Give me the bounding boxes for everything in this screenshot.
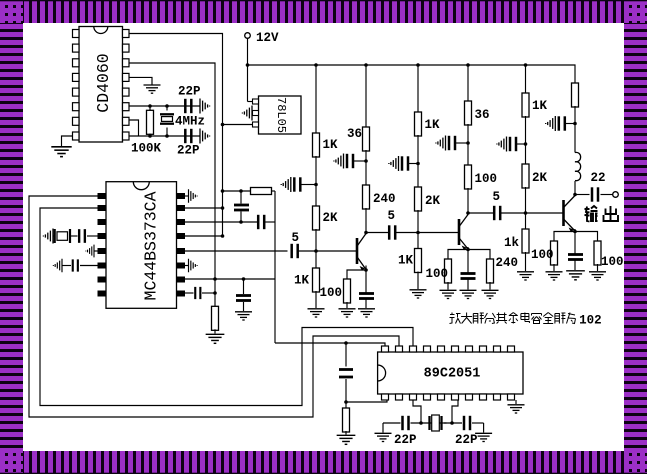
node dot [213, 277, 217, 281]
transistor Q3 [526, 196, 575, 233]
svg-text:100: 100 [320, 286, 343, 300]
decorative border top [23, 0, 624, 23]
svg-text:1k: 1k [504, 236, 520, 250]
emitter bypass cap stage2 [467, 250, 469, 274]
resistor below resonator [345, 402, 347, 409]
wire CD4060 pin6 oscillator line [129, 105, 200, 107]
node dot [416, 162, 420, 166]
resistor 36 stage2 [465, 101, 472, 125]
sideways ground at 78L05 gnd pin [242, 106, 252, 121]
ground [339, 309, 356, 317]
ground [566, 271, 585, 280]
svg-text:36: 36 [475, 108, 490, 122]
node dot [239, 220, 243, 224]
wire CD4060 left pin8 to ground [62, 136, 73, 146]
divider column x=418 [417, 65, 419, 113]
ground [589, 272, 606, 280]
emitter bypass cap stage3 [574, 232, 576, 255]
decoupling cap stage2 divider [408, 163, 418, 165]
wire CD4060 pin8 oscillator line [129, 135, 200, 137]
corner bottom-left [0, 451, 23, 474]
svg-text:1K: 1K [532, 99, 548, 113]
wire 12V drop to 78L05 [247, 38, 249, 101]
node dot collector Q1 [364, 231, 368, 235]
wire loop A: MC pin L1 to 89C2051 pin2 [29, 196, 399, 417]
capacitor column x=243.5 to ground [243, 279, 245, 294]
emitter resistor 100 stage1 [347, 270, 366, 280]
svg-text:100: 100 [531, 248, 554, 262]
decoupling cap stage1 collector [353, 160, 366, 162]
emitter bypass cap stage1 [365, 270, 367, 294]
resistor 2K stage1 [313, 206, 320, 230]
node dot [524, 142, 528, 146]
ground at 89C2051 bottom right pin [515, 400, 517, 404]
node dot base stage1 [314, 249, 318, 253]
decorative border right [624, 23, 647, 451]
svg-text:100K: 100K [131, 142, 162, 156]
capacitor at MC pin L6 [80, 265, 98, 267]
sideways ground right of top 22P [200, 99, 210, 114]
wire MC pin R2 to bus [185, 207, 223, 209]
svg-text:100: 100 [426, 267, 449, 281]
divider column x=316 [315, 65, 317, 134]
svg-text:5: 5 [388, 209, 396, 223]
sideways ground at L6 [53, 259, 62, 273]
coupling cap 5 stage1-2 [366, 232, 389, 234]
wire 12V to 78L05 in [248, 101, 253, 103]
svg-text:102: 102 [579, 314, 602, 328]
resistor 2K stage2 [415, 187, 422, 211]
collector column x=366 [365, 65, 367, 128]
ground [460, 290, 477, 298]
ground below x=215 resistor [206, 334, 225, 343]
crystal X2 [430, 416, 442, 430]
node dot base Q3 [524, 211, 528, 215]
node dot [213, 291, 217, 295]
svg-text:78L05: 78L05 [274, 97, 288, 133]
svg-text:1K: 1K [323, 138, 339, 152]
ground [410, 290, 427, 298]
node dot [450, 421, 454, 425]
svg-text:22P: 22P [455, 433, 478, 447]
ground [337, 435, 356, 444]
node dot [314, 183, 318, 187]
wire CD4060 pin7 jog [129, 120, 139, 136]
ground below CD4060 left [51, 147, 71, 157]
ground [482, 290, 499, 298]
ground [358, 309, 375, 317]
node dot [524, 63, 528, 67]
node dot collector Q2 [466, 211, 470, 215]
resonator plates [339, 370, 353, 378]
node dot [573, 122, 577, 126]
wire CD4060 pin4 to ground [129, 77, 152, 84]
decorative border left [0, 23, 23, 451]
corner top-left [0, 0, 23, 23]
resistor 1k below base Q3 [522, 229, 529, 253]
divider column x=525.5 [525, 65, 527, 94]
node dot [239, 189, 243, 193]
wire MC pin R4 to bus [185, 235, 223, 237]
node dot emitter Q3 [573, 230, 577, 234]
capacitor C 22P bottom [185, 129, 191, 143]
riser to 89C2051 bottom pin3 [413, 400, 421, 423]
emitter resistor 100 stage3 right [575, 232, 598, 243]
wire x=275 corner to 89C2051 pin1 [275, 343, 385, 346]
decoupling cap stage3 divider [516, 143, 526, 145]
svg-text:100: 100 [601, 255, 624, 269]
emitter resistor 100 stage3 left [554, 232, 575, 243]
sideways ground at L4 [43, 229, 53, 244]
svg-text:240: 240 [496, 256, 519, 270]
svg-text:22P: 22P [178, 85, 201, 99]
svg-text:36: 36 [347, 127, 362, 141]
IC U3 MC44BS373CA [98, 182, 186, 309]
node dot [165, 104, 169, 108]
node dot MC R4 [221, 234, 225, 238]
svg-text:5: 5 [292, 231, 300, 245]
resistor 1K stage1 lower [313, 268, 320, 292]
node dot [148, 104, 152, 108]
edge line bottom [0, 473, 647, 474]
vertical wire x=275 down to 89C2051 line [274, 191, 276, 343]
node dot 12V bus [246, 63, 250, 67]
decoupling cap stage3 collector [565, 123, 575, 125]
12V supply terminal [245, 33, 251, 39]
svg-text:1K: 1K [425, 118, 441, 132]
ground stage1 divider [308, 309, 325, 317]
node dot [364, 159, 368, 163]
node dot [221, 189, 225, 193]
resistor line from bus y=191 [223, 190, 251, 192]
wire to 89C2051 bottom pin1 [346, 400, 387, 402]
wire 12V top bus [248, 65, 576, 84]
node dot [416, 63, 420, 67]
node dot [344, 400, 348, 404]
svg-text:22P: 22P [394, 433, 417, 447]
resistor R 100K [149, 106, 151, 111]
sideways ground at MC pin R1 [185, 195, 189, 197]
wire CD4060 pin1 to vertical bus x=222.5 [129, 34, 223, 237]
capacitor 22P left [403, 416, 409, 430]
wire loop B: MC pin L2 to 89C2051 pin3 [40, 208, 413, 406]
sideways ground right of bottom 22P [200, 129, 210, 144]
collector column x=575 resistor [572, 83, 579, 107]
svg-text:5: 5 [493, 190, 501, 204]
resistor 2K stage3 [522, 164, 529, 188]
resonator column x=346 [345, 343, 347, 367]
label 输出 (output) [585, 206, 619, 222]
crystal Y1 4MHz [166, 106, 168, 111]
decorative border bottom [23, 451, 624, 474]
resistor R horizontal [251, 188, 272, 195]
node dot emitter Q2 [466, 248, 470, 252]
svg-text:1K: 1K [294, 274, 310, 288]
ground right end [483, 423, 485, 433]
wire CD4060 pin3 to vertical bus x=215 [129, 63, 215, 309]
capacitor C 22P top [185, 99, 191, 113]
node dot [221, 206, 225, 210]
svg-text:89C2051: 89C2051 [424, 367, 481, 382]
resistor 100 stage2 collector [465, 165, 472, 189]
svg-text:MC44BS373CA: MC44BS373CA [142, 191, 161, 300]
resistor R on bus x=215 [212, 306, 219, 330]
inductor L1 [575, 152, 581, 180]
node dot collector Q3 [573, 193, 577, 197]
corner bottom-right [624, 451, 647, 474]
svg-text:2K: 2K [532, 171, 548, 185]
svg-text:2K: 2K [425, 194, 441, 208]
sideways ground at MC pin L5 [94, 250, 98, 252]
svg-text:100: 100 [475, 172, 498, 186]
IC U4 89C2051 [378, 346, 523, 400]
decoupling cap stage2 collector [455, 142, 468, 144]
ground below cap [235, 312, 252, 320]
transistor Q2 [418, 215, 468, 251]
svg-text:4MHz: 4MHz [175, 115, 205, 129]
output terminal circle [613, 192, 619, 198]
crystal line of 89C2051 [383, 422, 401, 424]
node dot [419, 421, 423, 425]
coupling cap 5 stage2-3 [468, 212, 494, 214]
IC U2 78L05 [253, 96, 302, 134]
resistor 1K stage1 top [313, 133, 320, 157]
note text: amplifier caps are all 102 [450, 313, 602, 328]
sideways ground at MC pin R6 [185, 265, 189, 267]
capacitor on R3 line [258, 215, 264, 229]
output coupling cap 22 [575, 194, 590, 196]
node dot [165, 134, 169, 138]
resistor 1K stage3 top [522, 93, 529, 117]
wire MC pin R7 [185, 278, 275, 280]
svg-text:22P: 22P [177, 144, 200, 158]
wire MC pin R8 with series cap [185, 292, 194, 294]
svg-text:12V: 12V [256, 31, 279, 45]
collector column x=468 [467, 65, 469, 102]
node dot [344, 341, 348, 345]
svg-text:22: 22 [591, 171, 606, 185]
svg-text:240: 240 [373, 192, 396, 206]
decoupling cap at stage1 divider node [300, 184, 316, 186]
ground [440, 290, 457, 298]
corner top-right [624, 0, 647, 23]
crystal at L4 [55, 229, 70, 243]
node dot [314, 63, 318, 67]
node dot on bus [221, 123, 225, 127]
node dot base Q2 [416, 231, 420, 235]
edge line top [0, 0, 647, 1]
svg-text:CD4060: CD4060 [94, 53, 113, 112]
node dot [148, 134, 152, 138]
ground [546, 272, 563, 280]
capacitor C column x=241 [240, 191, 242, 204]
node dot [364, 63, 368, 67]
IC U1 CD4060 [73, 27, 130, 143]
capacitor C5 input (5) [292, 244, 298, 258]
capacitor 22P right [464, 416, 470, 430]
ground left end [382, 423, 384, 433]
wire 78L05 out to bus [223, 124, 253, 126]
emitter resistor 100 stage2 [448, 250, 468, 261]
crystal network at MC pin L4 [87, 235, 98, 237]
ground at CD4060 pin4 [144, 85, 161, 93]
node dot [466, 141, 470, 145]
ground [517, 272, 534, 280]
resistor 1K below base Q2 [415, 249, 422, 273]
node dot emitter Q1 [364, 268, 368, 272]
resistor 36 stage1 [363, 127, 370, 151]
emitter resistor 240 stage2 [468, 250, 490, 261]
node dot [466, 63, 470, 67]
wire MC pin R3 with series capacitor [185, 221, 258, 223]
resistor 240 stage1 [363, 185, 370, 209]
riser to 89C2051 bottom pin5 [452, 400, 458, 423]
node dot [242, 277, 246, 281]
resistor 1K stage2 top [415, 112, 422, 136]
svg-text:1K: 1K [398, 254, 414, 268]
wire MC pin R5 to stage1 input cap [185, 250, 288, 252]
transistor Q1 [316, 234, 366, 271]
svg-text:2K: 2K [323, 211, 339, 225]
